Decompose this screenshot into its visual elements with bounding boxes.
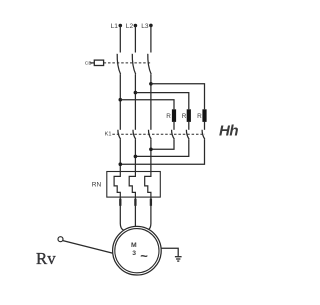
- svg-text:M: M: [131, 242, 137, 249]
- wire L3 drop to CB: [150, 25, 152, 52]
- wire L1 drop to CB: [119, 26, 121, 53]
- breaker CB pole 3 blade: [148, 54, 151, 75]
- wire feed resistor branch 3: [151, 84, 205, 110]
- junction return branch 2 on phase 2: [134, 155, 138, 159]
- svg-text:RN: RN: [92, 181, 102, 188]
- wire return resistor branch 1 to phase 3: [151, 139, 174, 149]
- motor terminal stub phase 2: [134, 199, 136, 206]
- svg-text:Hh: Hh: [219, 122, 238, 139]
- breaker CB linkage dashed line: [104, 62, 151, 64]
- wire phase 3 CB to K1: [150, 74, 152, 130]
- wire motor to earth: [161, 248, 178, 256]
- svg-text:R: R: [182, 113, 187, 120]
- svg-text:L2: L2: [126, 23, 134, 30]
- resistor R (branch 3) body: [202, 109, 206, 122]
- contactor K1 contact phase 3 blade: [148, 130, 151, 139]
- contact resistor branch 2 blade: [186, 130, 189, 139]
- breaker CB pole 1 blade: [117, 54, 120, 75]
- wire phase 1 CB to K1: [119, 74, 121, 130]
- svg-text:Rv: Rv: [36, 249, 56, 268]
- svg-text:~: ~: [140, 248, 148, 263]
- heater element phase 1: [114, 172, 120, 198]
- junction return branch 1 on phase 3: [149, 148, 153, 152]
- contact resistor branch 1 blade: [172, 130, 175, 139]
- contact resistor branch 3 blade: [202, 130, 205, 139]
- heater element phase 3: [145, 172, 151, 198]
- node L1 terminal dot: [119, 24, 123, 28]
- wire return resistor branch 3 to phase 1: [120, 139, 204, 164]
- contactor K1 contact phase 2 blade: [133, 130, 136, 139]
- svg-text:3: 3: [132, 250, 136, 257]
- svg-text:K1: K1: [105, 131, 112, 137]
- svg-text:L1: L1: [111, 23, 119, 30]
- svg-text:R: R: [197, 113, 202, 120]
- motor M1 outer circle: [113, 226, 162, 275]
- motor terminal stub phase 3: [150, 199, 152, 206]
- wire speed setter lead to motor: [63, 241, 113, 254]
- wire phase 1 K1 to RN: [119, 139, 121, 171]
- wire resistor branch 2 lower stub: [188, 122, 190, 130]
- speed setter terminal circle: [58, 237, 63, 242]
- resistor R (branch 1) body: [172, 109, 176, 122]
- wire resistor branch 3 lower stub: [204, 122, 206, 130]
- breaker CB pole 2 blade: [132, 54, 135, 75]
- svg-text:R: R: [166, 113, 171, 120]
- wire phase 2 K1 to RN: [134, 139, 136, 171]
- wire feed resistor branch 1: [120, 100, 174, 110]
- breaker CB actuator link: [90, 62, 95, 64]
- wire feed resistor branch 2: [135, 93, 188, 110]
- svg-text:L3: L3: [141, 23, 149, 30]
- thermal overload relay RN box: [107, 172, 161, 198]
- wire phase 3 K1 to RN: [150, 139, 152, 171]
- node L3 terminal dot: [149, 24, 153, 28]
- heater element phase 2: [129, 172, 135, 198]
- wire resistor branch 1 lower stub: [173, 122, 175, 130]
- junction return branch 3 on phase 1: [119, 162, 123, 166]
- motor M1 inner circle: [115, 229, 159, 273]
- junction phase 1 to resistor branch 1: [119, 98, 123, 102]
- wire phase 1 RN to motor: [120, 197, 123, 230]
- wire phase 2 CB to K1: [134, 74, 136, 130]
- junction phase 3 to resistor branch 3: [149, 82, 153, 86]
- breaker CB operating box: [94, 60, 103, 65]
- ground bar 2: [176, 258, 180, 260]
- ground bar 3: [177, 260, 179, 262]
- wire return resistor branch 2 to phase 2: [135, 139, 188, 156]
- wire L2 drop to CB: [134, 26, 136, 53]
- contactor K1 linkage dashed line: [112, 133, 205, 135]
- junction phase 2 to resistor branch 2: [134, 91, 138, 95]
- wire phase 2 RN to motor: [134, 197, 136, 226]
- contactor K1 contact phase 1 blade: [118, 130, 121, 139]
- node L2 terminal dot: [134, 24, 138, 28]
- ground bar 1: [175, 256, 182, 258]
- resistor R (branch 2) body: [187, 109, 191, 122]
- wire phase 3 RN to motor: [148, 197, 151, 230]
- motor terminal stub phase 1: [119, 199, 121, 206]
